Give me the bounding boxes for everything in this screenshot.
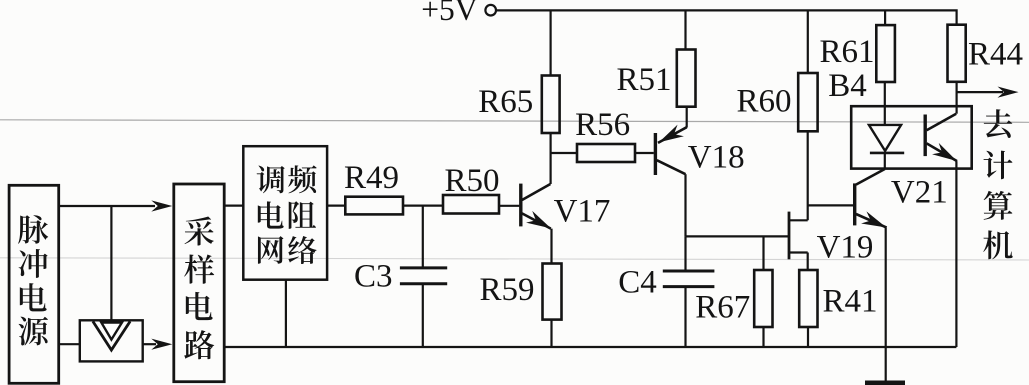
scan artifact gray line — [0, 120, 1029, 123]
svg-text:R65: R65 — [478, 84, 533, 120]
resistor R41 — [799, 270, 817, 327]
wire: junction drop to probe box — [110, 206, 112, 322]
wire: R41 to ground rail — [807, 327, 809, 347]
wire: pulse source to sampling circuit (top) with arrow — [59, 205, 155, 207]
wire: V19 drain branch to V21 base — [808, 204, 854, 206]
wire: R56 to V18 base — [635, 152, 654, 154]
resistor R65 — [542, 76, 560, 134]
svg-text:R56: R56 — [575, 107, 630, 143]
resistor R60 — [798, 73, 817, 131]
wire: V17 collector up to R65 — [549, 133, 551, 184]
probe box — [80, 320, 143, 361]
wire: node line V18 collector to V19 gate — [686, 235, 790, 237]
+5V terminal circle — [485, 5, 496, 16]
svg-text:R60: R60 — [736, 84, 791, 120]
wire: FM network box bottom to ground rail — [285, 280, 287, 347]
svg-text:R61: R61 — [819, 34, 874, 70]
phototransistor base bar — [924, 115, 927, 157]
svg-text:R49: R49 — [344, 160, 399, 196]
wire: R65 to +5V rail — [549, 10, 551, 75]
svg-text:V18: V18 — [688, 140, 745, 176]
ground — [865, 381, 905, 385]
box: pulse source 脉冲电源 — [9, 185, 59, 383]
probe arrowhead (hollow triangle) — [101, 323, 122, 340]
wire: pulse source to probe box (bottom) — [59, 343, 80, 345]
resistor R44 — [948, 25, 966, 82]
wire: R59 to ground rail — [550, 320, 552, 347]
LED wire from R61 — [884, 82, 886, 125]
wire: V18 emitter up to R51 — [686, 107, 688, 128]
svg-text:V17: V17 — [554, 194, 611, 230]
wire: phototransistor emitter down to rail — [955, 161, 957, 347]
svg-text:R41: R41 — [822, 283, 877, 319]
svg-text:R44: R44 — [968, 37, 1023, 73]
wire: ground rail — [224, 346, 956, 348]
wire: R67 to ground rail — [762, 327, 764, 347]
resistor R61 — [884, 10, 886, 25]
phototransistor emitter — [927, 143, 957, 161]
label 去计算机 (to computer) — [983, 109, 1012, 259]
box: FM resistor network 调频电阻网络 — [243, 146, 327, 280]
svg-text:R50: R50 — [444, 163, 499, 199]
probe V symbol — [93, 321, 130, 350]
capacitor C3 — [422, 206, 424, 268]
wire: sampling to FM network box — [224, 205, 243, 207]
svg-text:R67: R67 — [695, 290, 750, 326]
box: sampling circuit 采样电路 — [174, 184, 224, 382]
transistor V18 (PNP) — [654, 133, 657, 175]
resistor R56 — [577, 144, 635, 162]
wire: R51 to +5V rail — [684, 10, 686, 49]
wire: +5V top rail — [497, 10, 957, 24]
LED triangle — [869, 125, 901, 151]
scan artifact gray line 2 — [0, 258, 1029, 260]
wire: V17 emitter down to R59 — [550, 229, 552, 264]
phototransistor collector — [927, 114, 957, 131]
wire: V18 collector down to node — [684, 174, 686, 236]
wire: R44 bottom to phototransistor collector — [955, 82, 957, 114]
transistor V17 (NPN) — [519, 184, 522, 227]
resistor R50 — [443, 195, 499, 214]
wire: probe box to sampling circuit with arrow — [143, 343, 156, 345]
svg-text:R59: R59 — [479, 272, 534, 308]
svg-text:V21: V21 — [891, 174, 948, 210]
resistor R49 — [345, 197, 403, 215]
svg-text:R51: R51 — [616, 62, 671, 98]
transistor V21 — [853, 183, 856, 225]
wire: V21 emitter down to ground — [885, 228, 887, 381]
wire: R49 to R50 — [403, 205, 443, 207]
wire: R60 to +5V rail — [807, 10, 809, 73]
capacitor C4 — [684, 236, 686, 271]
optocoupler B4 box — [851, 106, 972, 168]
wire: V19 drain up to R60 — [807, 131, 809, 220]
wire: FM network to R49 — [326, 205, 345, 207]
wire: LED cathode to box bottom — [884, 153, 886, 169]
LED cathode bar — [870, 152, 904, 155]
resistor R59 — [543, 264, 562, 320]
svg-text:+5V: +5V — [421, 0, 478, 27]
svg-text:C4: C4 — [618, 264, 657, 300]
transistor V19 — [788, 212, 791, 260]
wire: V19 source down to R41 — [807, 253, 809, 271]
resistor R51 — [677, 50, 696, 107]
svg-text:V19: V19 — [817, 229, 874, 265]
wire: R65 branch to R56 — [551, 152, 577, 154]
wire: R50 to V17 base — [499, 205, 519, 207]
resistor R67 — [762, 236, 764, 270]
svg-text:B4: B4 — [828, 68, 867, 104]
svg-text:C3: C3 — [354, 259, 393, 295]
output arrow to computer — [957, 91, 1003, 93]
